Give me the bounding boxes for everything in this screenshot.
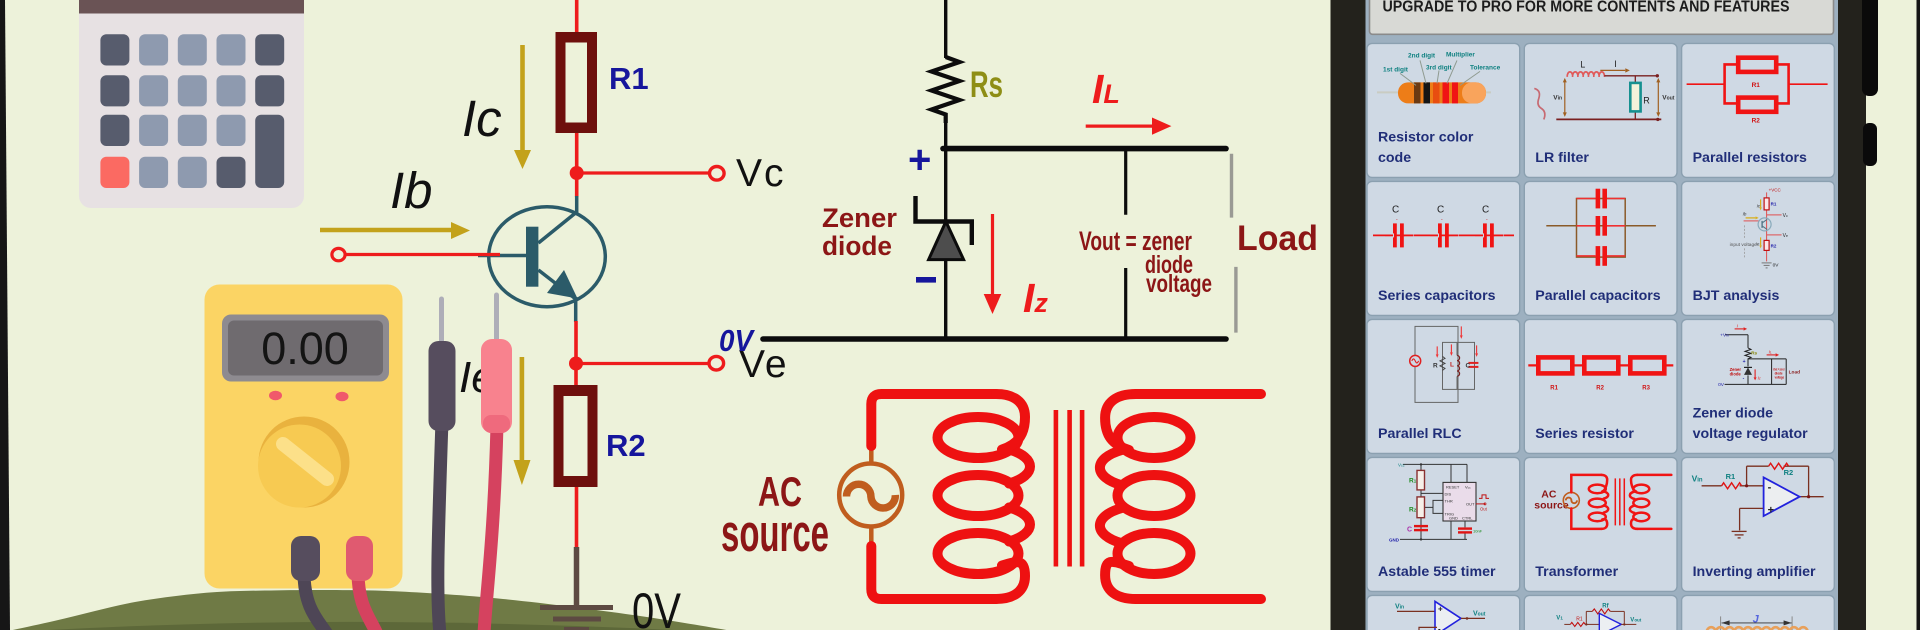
calculator body (79, 0, 304, 208)
ground (540, 547, 613, 630)
svg-text:R: R (1643, 95, 1650, 105)
svg-text:voltage: voltage (1146, 270, 1212, 298)
svg-text:GND: GND (1389, 537, 1400, 542)
wire: Vout tap upper (1124, 149, 1127, 215)
svg-text:+VCC: +VCC (1769, 187, 1782, 192)
svg-text:Vin: Vin (1395, 603, 1404, 610)
AC source symbol (839, 440, 902, 550)
svg-text:Vout: Vout (1473, 610, 1486, 617)
svg-text:R2: R2 (1596, 385, 1604, 391)
current arrow Iz (984, 214, 1002, 314)
multimeter dial (259, 417, 350, 508)
load bracket (1230, 154, 1233, 218)
svg-text:R2: R2 (1752, 117, 1761, 124)
svg-text:Astable 555 timer: Astable 555 timer (1378, 564, 1496, 580)
svg-text:RESET: RESET (1446, 484, 1460, 489)
wire: zener to bottom rail (944, 259, 947, 339)
svg-text:R1: R1 (1550, 385, 1558, 391)
svg-text:C: C (1437, 204, 1444, 215)
svg-text:Vc: Vc (736, 152, 786, 195)
svg-text:L: L (1450, 361, 1454, 368)
svg-text:Iz: Iz (1758, 375, 1761, 380)
svg-text:Parallel capacitors: Parallel capacitors (1535, 288, 1661, 304)
svg-text:IL: IL (1769, 349, 1772, 354)
svg-text:+: + (908, 138, 931, 182)
svg-text:code: code (1378, 150, 1411, 166)
svg-text:THR: THR (1445, 498, 1453, 503)
svg-text:C: C (1482, 204, 1489, 215)
svg-text:L: L (1580, 59, 1585, 69)
svg-text:J: J (1753, 613, 1760, 625)
svg-text:Vout: Vout (1662, 94, 1674, 101)
wire: input to Rs (944, 0, 947, 58)
BJT bias circuit (320, 0, 789, 630)
terminal base (open circle) (332, 248, 345, 260)
svg-text:Parallel RLC: Parallel RLC (1378, 426, 1462, 442)
phone screen (1366, 0, 1839, 630)
svg-text:Zener diode: Zener diode (1693, 405, 1774, 421)
svg-text:CTRL: CTRL (1462, 515, 1473, 520)
current arrow Ic (514, 45, 531, 169)
multimeter display (222, 315, 389, 382)
svg-text:R1: R1 (1752, 82, 1761, 89)
thumb: series capacitors (1373, 223, 1514, 247)
primary wires (871, 394, 996, 446)
svg-text:C: C (1392, 204, 1399, 215)
wire: R2 to ground (575, 487, 579, 549)
right black edge strip (1917, 0, 1920, 630)
terminal Vc (open circle) (710, 167, 725, 181)
svg-text:Zener: Zener (822, 203, 897, 233)
thumb: parallel capacitors (1546, 199, 1656, 258)
transformer graphic (721, 394, 1261, 599)
svg-text:Parallel resistors: Parallel resistors (1693, 150, 1807, 166)
svg-text:Multiplier: Multiplier (1446, 51, 1475, 58)
thumb: summing amp (partial) (1556, 603, 1642, 630)
resistor Rs (zigzag) (932, 57, 960, 123)
thumb: LR filter (1534, 59, 1674, 121)
svg-text:R2: R2 (1784, 468, 1794, 477)
svg-text:Resistor color: Resistor color (1378, 129, 1474, 145)
secondary coil (1100, 394, 1191, 599)
transistor Q1 (NPN) (478, 196, 605, 322)
calculator buttons (100, 34, 284, 188)
svg-text:C: C (1407, 526, 1412, 533)
wire: base (345, 253, 500, 256)
svg-text:R3: R3 (1642, 385, 1650, 391)
svg-text:diode: diode (1730, 371, 1742, 376)
svg-text:Ib: Ib (1743, 211, 1747, 216)
svg-text:R2: R2 (1409, 506, 1417, 513)
zener diode D1 (916, 196, 972, 260)
thumb: inverting amplifier (1692, 463, 1824, 538)
svg-text:GND: GND (1449, 515, 1458, 520)
svg-text:Rs: Rs (970, 64, 1003, 105)
multimeter leds (269, 391, 282, 401)
svg-text:3rd digit: 3rd digit (1426, 64, 1452, 71)
probe black (429, 299, 456, 431)
svg-text:+: + (1768, 504, 1774, 516)
node: collector junction dot (570, 166, 584, 180)
thumb: transformer (1534, 475, 1671, 529)
svg-text:R1: R1 (1726, 472, 1736, 481)
multimeter (205, 285, 513, 630)
resistor R2 (554, 385, 598, 487)
svg-text:Transformer: Transformer (1535, 564, 1618, 580)
svg-text:Load: Load (1237, 219, 1318, 258)
svg-text:1st digit: 1st digit (1383, 66, 1409, 73)
svg-text:source: source (721, 504, 829, 563)
svg-text:Rs: Rs (1751, 350, 1757, 356)
phone bezel (1331, 0, 1867, 630)
thumb: parallel resistors (1687, 58, 1828, 112)
svg-text:diode: diode (822, 231, 892, 261)
thumb: BJT analysis (1730, 187, 1788, 268)
svg-text:0.00: 0.00 (261, 323, 349, 374)
hill (dark olive ground) (0, 590, 758, 630)
svg-text:DIS: DIS (1445, 491, 1452, 496)
svg-text:voltage regulator: voltage regulator (1693, 426, 1809, 442)
svg-text:R1: R1 (1576, 616, 1583, 622)
label - (zener) (916, 277, 936, 283)
phone side buttons (1862, 0, 1878, 96)
svg-text:input voltage: input voltage (1730, 242, 1758, 248)
wire: bottom rail (763, 336, 1226, 342)
calculator (79, 0, 304, 208)
svg-text:BJT analysis: BJT analysis (1693, 288, 1780, 304)
svg-text:Vin: Vin (1553, 94, 1562, 101)
current arrow Ib (320, 222, 470, 239)
probe wire (black) (438, 420, 442, 630)
wire: collector node to Vc terminal (577, 171, 709, 174)
terminal Ve (open circle) (709, 356, 724, 370)
thumb: astable 555 timer (1389, 462, 1489, 542)
current arrow IL (1086, 118, 1172, 135)
svg-text:-: - (1768, 481, 1772, 493)
svg-text:Load: Load (1789, 369, 1801, 375)
svg-text:Series capacitors: Series capacitors (1378, 288, 1496, 304)
upgrade banner (1370, 0, 1834, 34)
core lines (1054, 410, 1059, 567)
svg-text:+: + (1438, 604, 1443, 613)
svg-text:R1: R1 (1771, 201, 1777, 206)
svg-text:UPGRADE TO PRO FOR MORE CONTEN: UPGRADE TO PRO FOR MORE CONTENTS AND FEA… (1383, 0, 1790, 16)
wire: supply to R1 (575, 0, 579, 36)
wire: emitter to Ve node (574, 321, 578, 386)
wire: Rs to top rail (944, 122, 947, 149)
calculator top band (79, 0, 304, 14)
hill shadow lower-left (12, 622, 748, 630)
wire: R1 to collector node (575, 133, 579, 197)
thumb: zener regulator (1718, 323, 1800, 388)
svg-text:0V: 0V (1773, 262, 1780, 268)
wire: rail to zener (944, 149, 947, 222)
node: emitter junction dot (569, 357, 583, 371)
left black edge strip (0, 0, 10, 630)
thumb: parallel RLC (1410, 326, 1479, 402)
thumb: solenoid (partial) (1707, 613, 1808, 630)
secondary wires (1136, 389, 1261, 399)
svg-text:Out: Out (1480, 506, 1488, 511)
svg-text:Ic: Ic (462, 90, 502, 147)
probe red (481, 295, 512, 433)
svg-text:OUT: OUT (1466, 501, 1475, 506)
svg-text:R2: R2 (606, 428, 646, 463)
svg-text:Vcc: Vcc (1398, 462, 1405, 467)
svg-text:-: - (1438, 624, 1441, 630)
thumb: buffer (partial) (1395, 601, 1486, 630)
wire: Vout tap lower (1124, 268, 1127, 339)
svg-text:C: C (1466, 362, 1471, 369)
svg-text:voltage: voltage (1775, 375, 1785, 379)
svg-text:0V: 0V (719, 323, 755, 358)
thumb: resistor color code (1377, 51, 1501, 103)
probe wire (red) (484, 425, 497, 630)
svg-text:Tolerance: Tolerance (1470, 64, 1501, 71)
svg-text:I: I (1614, 59, 1617, 69)
svg-text:0V: 0V (1718, 382, 1725, 388)
thumb: series resistor (1528, 357, 1673, 373)
svg-text:2nd digit: 2nd digit (1408, 52, 1436, 59)
svg-text:R1: R1 (1409, 477, 1417, 484)
multimeter jacks (304, 572, 327, 630)
svg-text:Inverting amplifier: Inverting amplifier (1693, 564, 1816, 580)
svg-text:10nF: 10nF (1473, 528, 1483, 533)
svg-text:R2: R2 (1771, 243, 1777, 248)
svg-text:0V: 0V (632, 583, 682, 630)
resistor R1 (556, 32, 598, 133)
wire: emitter node to Ve terminal (576, 362, 709, 365)
svg-text:LR filter: LR filter (1535, 150, 1589, 166)
svg-text:Series resistor: Series resistor (1535, 426, 1634, 442)
svg-text:R: R (1433, 362, 1438, 369)
svg-text:Vcc: Vcc (1465, 484, 1471, 489)
current arrow Ie (514, 357, 531, 485)
wire: top rail (943, 146, 1226, 152)
svg-text:+: + (1743, 359, 1746, 365)
multimeter body (205, 285, 403, 589)
zener regulator circuit (719, 0, 1318, 358)
svg-text:Ib: Ib (390, 162, 433, 219)
phone mockup (1331, 0, 1879, 630)
svg-text:R1: R1 (609, 61, 649, 96)
primary coil (938, 394, 1031, 599)
